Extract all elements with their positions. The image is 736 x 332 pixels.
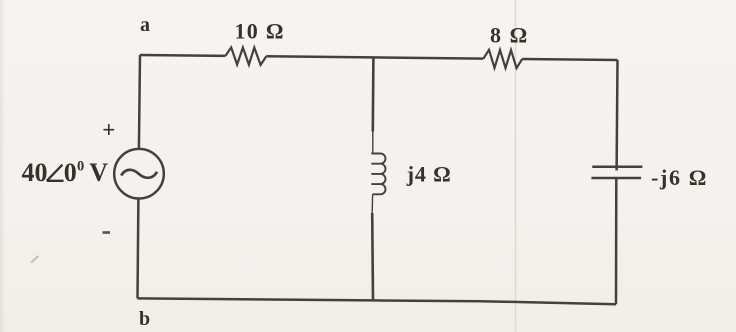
svg-text:0: 0: [77, 159, 84, 175]
svg-text:V: V: [89, 158, 108, 187]
svg-text:j4 Ω: j4 Ω: [406, 161, 451, 186]
svg-text:-j6 Ω: -j6 Ω: [651, 165, 706, 190]
svg-text:40: 40: [22, 158, 48, 187]
svg-text:b: b: [139, 308, 150, 330]
svg-text:+: +: [102, 118, 115, 143]
svg-text:a: a: [140, 14, 150, 36]
svg-text:0: 0: [64, 158, 77, 187]
svg-text:8 Ω: 8 Ω: [490, 23, 527, 48]
svg-text:10 Ω: 10 Ω: [235, 18, 284, 43]
